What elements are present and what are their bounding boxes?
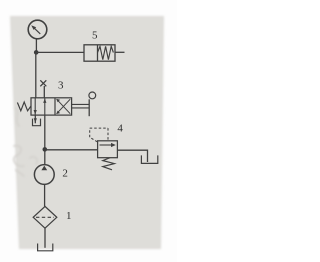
- wire branch to relief valve 4: [45, 149, 98, 151]
- relief valve 4 pilot line dashed: [90, 128, 108, 142]
- wire gauge stem: [35, 38, 37, 52]
- gauge needle: [33, 27, 41, 34]
- component 5 spring housing: [84, 45, 115, 61]
- svg-text:2: 2: [62, 168, 68, 180]
- valve 3 body: [31, 98, 72, 115]
- scanned page area: [10, 16, 164, 249]
- tank under valve 3: [33, 119, 41, 126]
- svg-text:1: 1: [66, 210, 72, 222]
- plugged port X: [40, 80, 46, 86]
- valve 3 left passage down: [34, 98, 36, 115]
- wire filter to tank: [44, 228, 46, 248]
- wire top horizontal to component 5: [36, 51, 84, 53]
- relief valve 4 body: [98, 141, 118, 158]
- valve 3 divider: [54, 98, 56, 115]
- wire component 5 right stub: [115, 51, 125, 53]
- svg-text:5: 5: [92, 30, 98, 42]
- pump 2 outlet triangle: [41, 166, 47, 171]
- component 5 divider: [97, 45, 99, 61]
- pump 2: [34, 165, 54, 185]
- tank right: [141, 155, 157, 163]
- node junction top: [34, 50, 39, 55]
- gauge needle arrowhead: [31, 25, 36, 30]
- relief valve 4 spring: [103, 158, 115, 170]
- wire X stem: [43, 86, 45, 98]
- valve 3 right passage up: [44, 98, 46, 115]
- wire valve to tank: [34, 115, 36, 123]
- wire pump to filter: [44, 184, 46, 206]
- faint scan ghost marks (bleed-through): [14, 108, 37, 176]
- relief valve 4 arrow: [100, 144, 113, 146]
- wire relief valve outlet: [117, 150, 147, 162]
- svg-text:4: 4: [117, 123, 123, 135]
- filter 1 element dashed: [36, 216, 54, 218]
- lever actuator valve 3: [72, 104, 90, 108]
- tank bottom: [38, 244, 53, 251]
- pressure gauge: [28, 20, 47, 39]
- component 5 spring: [98, 46, 114, 59]
- valve 3 crossed passages: [57, 99, 71, 114]
- svg-text:3: 3: [58, 79, 64, 91]
- wire junction to pump: [44, 149, 46, 164]
- filter 1 diamond: [33, 206, 57, 228]
- node junction pump outlet: [43, 147, 48, 152]
- wire valve to pump: [44, 115, 46, 149]
- wire main vertical gauge to valve: [35, 52, 37, 97]
- spring valve 3 left: [17, 102, 31, 111]
